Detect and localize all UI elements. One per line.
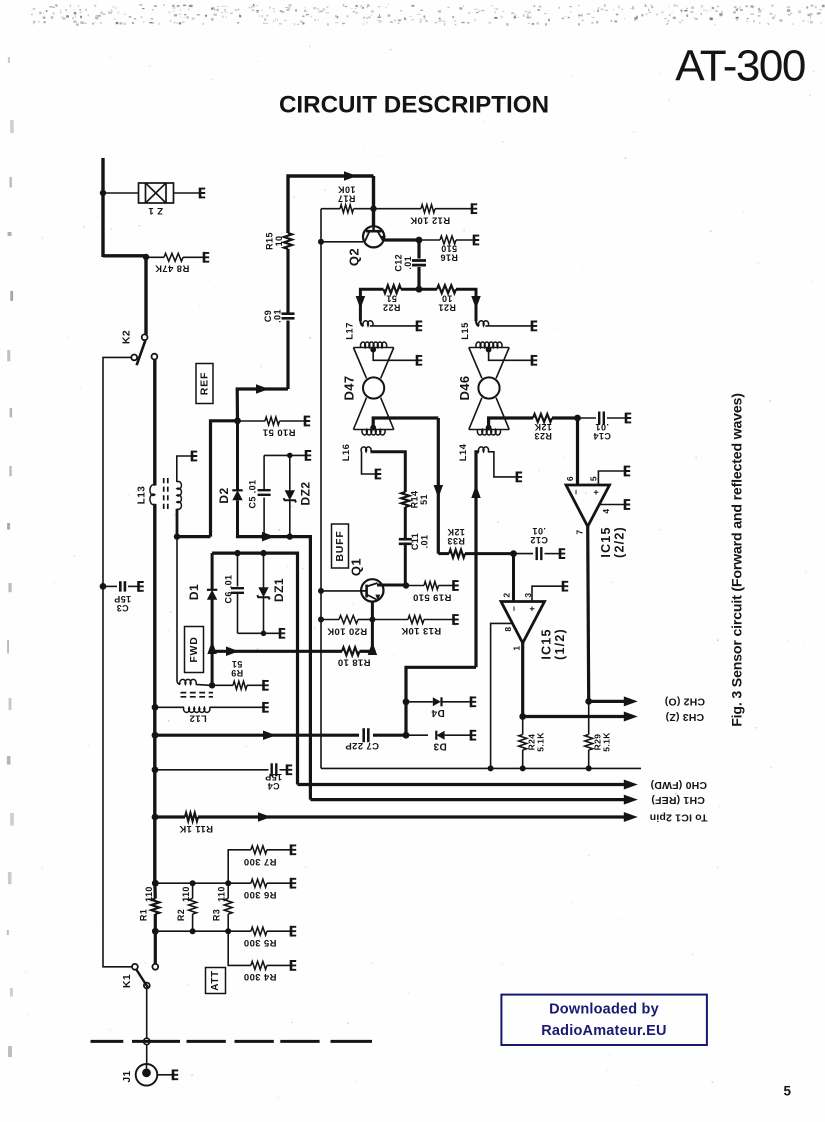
transformer L11 top winding: [176, 537, 178, 681]
svg-text:L13: L13: [137, 486, 148, 504]
ground (D4): [471, 696, 476, 707]
resistor R15: [284, 233, 292, 249]
resistor R2: [192, 883, 194, 898]
svg-text:J1: J1: [122, 1071, 133, 1083]
svg-text:(1/2): (1/2): [553, 628, 567, 660]
label R21 10: [438, 294, 456, 313]
wire L13 secondary bottom to FWD node: [176, 509, 179, 537]
ground (R19): [454, 580, 459, 591]
diode D2: [236, 421, 239, 491]
wire D46 top winding tap to ground: [489, 350, 531, 361]
transistor Q2: [363, 226, 384, 247]
svg-text:L14: L14: [458, 443, 469, 461]
svg-text:10: 10: [274, 236, 284, 247]
resistor R13: [372, 619, 408, 621]
svg-text:5: 5: [784, 1084, 792, 1099]
svg-text:.01: .01: [532, 526, 546, 536]
resistor R19: [406, 585, 424, 587]
ground (J1): [173, 1069, 178, 1080]
label box FWD: [185, 627, 204, 673]
detector transformer D46: [469, 342, 509, 435]
svg-text:K1: K1: [121, 974, 133, 988]
node ATT bottom: [152, 928, 159, 935]
svg-text:C11: C11: [410, 533, 420, 550]
label R29 5.1K: [593, 732, 612, 752]
svg-text:+: +: [527, 606, 537, 612]
node R11 tap: [152, 814, 159, 821]
ground (D47 top): [417, 355, 422, 366]
svg-text:51: 51: [232, 659, 243, 669]
inductor L17: [360, 321, 363, 326]
ground (pin4): [625, 499, 630, 510]
core L13: [164, 478, 168, 512]
svg-text:R4 300: R4 300: [243, 971, 276, 982]
wire CH1 (REF) output: [310, 798, 625, 801]
node DZ2 bottom: [287, 533, 293, 539]
svg-text:.01: .01: [595, 422, 609, 432]
wire C7 line: [155, 734, 359, 737]
resistor R29: [588, 701, 590, 734]
svg-text:R8 47K: R8 47K: [155, 263, 190, 274]
node DZ2 top: [287, 453, 293, 459]
ground (R4): [291, 960, 296, 971]
svg-text:L12: L12: [189, 713, 207, 724]
ground (L17): [417, 321, 422, 332]
ground (L14): [517, 472, 522, 483]
wire Q1 emitter down: [371, 602, 374, 652]
svg-text:R1: R1: [139, 909, 149, 921]
svg-text:L17: L17: [345, 322, 356, 340]
svg-text:CH3 (Z): CH3 (Z): [665, 711, 704, 723]
capacitor C4: [155, 769, 269, 771]
node CH3 junction: [519, 713, 526, 720]
ground (L15): [532, 321, 537, 332]
ground (R7): [291, 844, 296, 855]
node C4 tap: [152, 766, 159, 773]
resistor R11 / To IC1 2pin line: [155, 815, 185, 818]
svg-text:CH1 (REF): CH1 (REF): [651, 794, 705, 806]
wire IC15(2/2) input from R23: [576, 418, 579, 485]
capacitor C12b: [514, 553, 534, 555]
svg-text:−: −: [571, 489, 581, 495]
wire L14 left down to D3/D4 bus: [476, 452, 479, 668]
resistor R10: [238, 420, 266, 422]
svg-text:CH2 (O): CH2 (O): [665, 695, 705, 707]
svg-text:110: 110: [181, 886, 191, 902]
label R14 51: [409, 491, 429, 509]
wire Q2 emitter right: [384, 238, 419, 241]
svg-text:5: 5: [588, 476, 598, 481]
svg-text:RadioAmateur.EU: RadioAmateur.EU: [541, 1023, 666, 1039]
label C4 15P: [265, 772, 282, 791]
svg-text:CH0 (FWD): CH0 (FWD): [650, 779, 707, 791]
node C7/D3 junction: [403, 732, 410, 739]
svg-text:15P: 15P: [114, 594, 131, 604]
svg-text:L15: L15: [460, 322, 471, 340]
svg-text:51: 51: [386, 294, 397, 304]
wire REF node up to amp: [237, 389, 288, 421]
wire pin8: [491, 623, 512, 768]
wire step to K2: [103, 254, 146, 257]
wire riser to REF detector input: [177, 535, 211, 538]
svg-text:FWD: FWD: [188, 636, 200, 662]
svg-text:.01: .01: [419, 535, 429, 549]
ground (R8): [204, 252, 209, 263]
ground (D3): [471, 730, 476, 741]
svg-text:D3: D3: [433, 741, 447, 752]
svg-text:Downloaded by: Downloaded by: [549, 1002, 659, 1018]
wire K2 right contact down main line: [153, 360, 156, 486]
node IC15(1/2) input: [510, 550, 517, 557]
resistor R8: [146, 256, 164, 258]
wire bias rail: [321, 767, 641, 769]
resistor R5: [228, 930, 251, 932]
svg-text:.01: .01: [272, 309, 282, 323]
resistor R1: [153, 881, 157, 899]
resistor R18: [342, 647, 359, 655]
op-amp IC15 (1/2): [501, 602, 545, 644]
label R9 51: [231, 659, 243, 678]
svg-text:C5 .01: C5 .01: [248, 480, 258, 509]
node R20 left junction: [318, 617, 324, 623]
svg-text:12K: 12K: [534, 422, 552, 432]
ground (C12b): [560, 548, 565, 559]
node D4 junction: [403, 698, 410, 705]
svg-text:R2: R2: [176, 909, 186, 921]
ground (pin3): [563, 581, 568, 592]
inductor L14: [479, 447, 489, 452]
wire ATT bottom rail: [155, 930, 228, 932]
capacitor C3: [103, 585, 117, 587]
svg-text:(2/2): (2/2): [612, 526, 626, 558]
diode D4: [406, 701, 433, 703]
node Q2 base bias junction: [370, 206, 376, 212]
label C9 .01: [263, 309, 283, 323]
label C12 .01: [394, 254, 414, 272]
svg-text:R18 10: R18 10: [337, 657, 370, 668]
resistor R21: [419, 288, 437, 291]
transformer L12 bottom winding: [155, 706, 184, 708]
svg-text:R19 510: R19 510: [413, 592, 452, 603]
diode D1: [209, 682, 215, 688]
resistor R12: [374, 208, 422, 210]
svg-text:110: 110: [217, 886, 227, 902]
ground (L16): [376, 469, 381, 480]
wire pin3 to ground: [532, 586, 562, 601]
ground (Z1): [200, 188, 205, 199]
wire pin4 to ground: [599, 504, 624, 506]
svg-text:R3: R3: [211, 909, 221, 921]
svg-text:IC15: IC15: [539, 628, 553, 659]
node DZ1 top: [260, 550, 266, 556]
wire C5/DZ2 top rail: [264, 454, 305, 456]
wire to top bus: [288, 176, 374, 233]
svg-text:10: 10: [442, 294, 453, 304]
label IC15 (2/2): [599, 526, 627, 558]
resistor R16: [419, 239, 440, 241]
ground (R13): [454, 614, 459, 625]
op-amp IC15 (2/2): [566, 485, 610, 527]
svg-text:15P: 15P: [265, 772, 282, 782]
wire K1 common down: [146, 988, 148, 1038]
node L13/L11 junction: [174, 533, 180, 539]
label R15 10: [264, 232, 284, 250]
svg-text:R20 10K: R20 10K: [327, 626, 367, 637]
svg-text:ATT: ATT: [210, 970, 221, 991]
relay K2: [142, 334, 148, 340]
label box BUFF: [332, 524, 349, 568]
relay K1: [132, 964, 138, 970]
wire FWD output line: [212, 553, 297, 784]
wire main antenna vertical top: [101, 158, 104, 257]
ground (R6): [291, 878, 296, 889]
svg-text:1: 1: [512, 645, 522, 650]
wire pin5 to ground: [598, 471, 624, 485]
node REF detector input: [234, 417, 241, 424]
wire to pin2: [512, 554, 515, 602]
svg-text:D46: D46: [457, 375, 472, 400]
svg-text:R12 10K: R12 10K: [410, 214, 450, 225]
capacitor C14: [578, 417, 597, 419]
ground (C3): [139, 581, 144, 592]
ground (C4): [287, 764, 292, 775]
svg-text:7: 7: [574, 529, 584, 534]
node C7 tap: [152, 732, 159, 739]
wire junction arrow: [256, 384, 269, 394]
wire D47 bottom tap to R33: [373, 418, 438, 428]
label R16 510: [440, 244, 458, 263]
resistor R17: [321, 208, 340, 210]
transformer L13 secondary: [177, 481, 182, 509]
node Q2 base left: [318, 239, 324, 245]
svg-text:L16: L16: [341, 444, 352, 462]
resistor R9: [212, 684, 233, 686]
label C12 .01: [530, 526, 548, 545]
svg-text:Q1: Q1: [349, 558, 364, 576]
label R33 12K: [447, 527, 465, 546]
wire R33 input line: [438, 552, 449, 555]
wire CH2 (O) output: [589, 700, 625, 703]
svg-text:D1: D1: [187, 584, 201, 600]
label R23 12K: [534, 422, 552, 441]
svg-text:Q2: Q2: [347, 248, 362, 266]
ground (R12): [472, 203, 477, 214]
label R22 51: [383, 294, 401, 313]
svg-text:5.1K: 5.1K: [536, 732, 546, 752]
svg-text:R7 300: R7 300: [243, 856, 276, 867]
ground (D46 top): [532, 355, 537, 366]
svg-text:110: 110: [144, 886, 154, 902]
resistor R20: [321, 619, 339, 621]
svg-text:D47: D47: [342, 375, 357, 400]
svg-text:BUFF: BUFF: [334, 530, 346, 561]
svg-text:D4: D4: [431, 707, 445, 718]
capacitor C6: [237, 553, 239, 586]
svg-text:−: −: [509, 606, 519, 612]
svg-text:Fig. 3 Sensor circuit (Forwar: Fig. 3 Sensor circuit (Forward and refle…: [730, 393, 746, 727]
svg-text:K2: K2: [121, 330, 133, 344]
resistor R14: [401, 492, 409, 507]
svg-text:10K: 10K: [338, 185, 356, 195]
svg-text:IC15: IC15: [599, 526, 613, 557]
zener DZ1: [263, 553, 265, 587]
svg-text:D2: D2: [217, 487, 231, 503]
label box ATT: [206, 968, 226, 994]
svg-text:12K: 12K: [447, 527, 465, 537]
surge arrester Z1: [103, 192, 139, 194]
node C14 junction: [574, 415, 581, 422]
wire Q2 base feed vertical: [320, 209, 322, 769]
resistor R23: [533, 414, 552, 422]
node drive splitter: [416, 286, 423, 293]
inductor L15: [476, 321, 479, 326]
node Q1 collector junction: [403, 582, 409, 588]
resistor R4: [228, 931, 251, 965]
ground (R10): [305, 416, 310, 427]
resistor R33: [449, 550, 465, 558]
wire K2 left contact bypass: [103, 357, 132, 966]
node R8 tap: [143, 254, 149, 260]
transformer L13 primary: [150, 485, 155, 505]
svg-text:C12: C12: [394, 254, 404, 272]
svg-text:DZ2: DZ2: [299, 482, 313, 506]
capacitor C5: [263, 498, 265, 537]
svg-text:DZ1: DZ1: [272, 578, 286, 602]
svg-text:C7 22P: C7 22P: [345, 740, 379, 751]
svg-text:2: 2: [501, 592, 511, 597]
ground (R9): [264, 680, 269, 691]
label IC15 (1/2): [539, 628, 567, 660]
label C3 15P: [114, 594, 131, 613]
label C14 .01: [593, 422, 611, 441]
label R17 10K: [338, 185, 356, 204]
svg-text:R5 300: R5 300: [243, 937, 276, 948]
svg-text:8: 8: [503, 626, 513, 631]
node C6 top: [234, 550, 240, 556]
connector J1: [136, 1064, 158, 1086]
wire Q1 base left: [321, 590, 361, 592]
svg-text:+: +: [591, 489, 601, 495]
chassis dashed line: [91, 1040, 373, 1043]
node Z1 tap junction: [100, 190, 106, 196]
inductor L16: [361, 447, 371, 452]
resistor R6: [228, 882, 251, 884]
node CH2 junction: [585, 698, 592, 705]
svg-text:R14: R14: [409, 491, 419, 509]
ground (C14): [626, 413, 631, 424]
svg-text:AT-300: AT-300: [675, 42, 805, 91]
ground (C5/DZ2 rail): [306, 450, 311, 461]
wire D46 bottom tap to R23: [489, 418, 533, 428]
detector transformer D47: [353, 342, 393, 435]
svg-text:R6 300: R6 300: [243, 889, 276, 900]
svg-text:R15: R15: [264, 232, 274, 250]
diode D3: [406, 734, 428, 736]
wire FWD tap to R18: [209, 648, 215, 654]
svg-text:C9: C9: [263, 310, 273, 322]
svg-text:5.1K: 5.1K: [602, 732, 612, 752]
ground (C6/DZ1 rail): [280, 628, 285, 639]
zener DZ2: [289, 455, 291, 490]
label box REF: [196, 364, 213, 404]
label C11 .01: [410, 533, 430, 550]
svg-text:4: 4: [601, 508, 611, 513]
ground (L12): [264, 702, 269, 713]
wire IC15(1/2) output / CH3: [521, 641, 524, 717]
node C5 bottom: [261, 533, 267, 539]
resistor R7: [228, 850, 251, 883]
wire L14 right to ground: [488, 452, 516, 477]
ground (R5): [291, 926, 296, 937]
node ATT top: [152, 880, 159, 887]
watermark box RadioAmateur.EU: [501, 995, 707, 1045]
svg-text:C6 .01: C6 .01: [224, 575, 234, 604]
resistor R24: [522, 717, 524, 735]
svg-text:510: 510: [441, 244, 457, 254]
wire Q1 collector right: [377, 584, 406, 587]
node C3 tap: [100, 583, 107, 590]
wire bus corner down to Q2: [372, 176, 375, 227]
svg-text:CIRCUIT DESCRIPTION: CIRCUIT DESCRIPTION: [279, 92, 549, 119]
svg-text:REF: REF: [199, 372, 211, 395]
wire CH0 (FWD) output: [298, 783, 626, 786]
node main line L12 tap: [152, 704, 159, 711]
capacitor C11: [399, 538, 412, 541]
capacitor C7: [362, 728, 365, 742]
svg-text:6: 6: [565, 476, 575, 481]
node chassis feedthrough: [144, 1038, 150, 1044]
node emitter junction: [416, 237, 423, 244]
ground (R16): [474, 235, 479, 246]
wire D47 top winding tap to ground: [373, 350, 416, 361]
transistor Q1: [361, 579, 383, 601]
wire REF output line: [238, 536, 311, 800]
ground (L13 secondary top): [192, 451, 197, 462]
wire L16 to R14: [371, 452, 406, 492]
label R24 5.1K: [527, 732, 546, 752]
node emitter/R20 junction: [369, 617, 375, 623]
svg-text:To IC1 2pin: To IC1 2pin: [649, 811, 707, 823]
capacitor C12: [417, 240, 420, 259]
wire ATT top rail: [155, 882, 228, 884]
core L11/L12: [181, 693, 214, 697]
capacitor C9: [282, 312, 295, 315]
svg-text:R11 1K: R11 1K: [179, 823, 213, 834]
resistor R22: [401, 288, 419, 291]
node base junction: [318, 588, 324, 594]
svg-text:Z 1: Z 1: [148, 205, 163, 216]
wire IC15(2/2) output / CH2: [588, 525, 589, 702]
resistor R3: [227, 883, 229, 898]
svg-text:R10 51: R10 51: [262, 427, 295, 438]
svg-text:51: 51: [419, 494, 429, 505]
wire CH3 (Z) output: [523, 715, 625, 718]
svg-text:.01: .01: [403, 256, 413, 270]
svg-text:R13 10K: R13 10K: [401, 625, 441, 636]
wire C6/DZ1 bottom rail: [238, 632, 280, 634]
ground (pin5): [625, 466, 630, 477]
